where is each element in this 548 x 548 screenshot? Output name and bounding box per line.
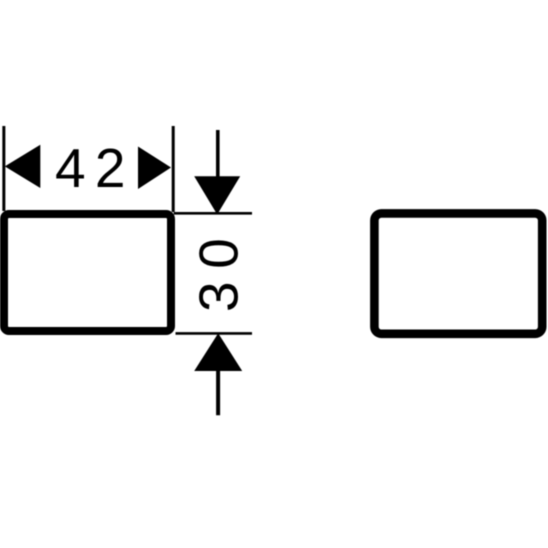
- svg-text:30: 30: [187, 225, 249, 312]
- svg-text:42: 42: [55, 137, 135, 199]
